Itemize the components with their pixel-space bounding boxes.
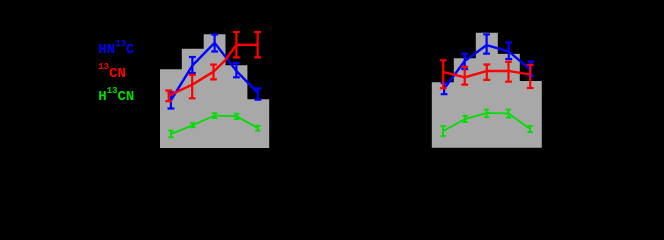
legend entry HN13C [98,42,134,58]
left 13CN (red) point P2 error bar [189,75,196,98]
right HN13C (blue) point P5 error bar [527,62,534,77]
left 13CN (red) point P5 error bar [254,32,261,57]
legend entry H13CN [98,89,134,105]
right H13CN (green) point P1 error bar [440,126,445,136]
right H13CN (green) point P3 error bar [484,110,489,118]
right 13CN (red) point P3 error bar [483,65,490,80]
left 13CN (red) point P4 error bar [233,32,240,57]
left HN13C (blue) line [171,43,258,101]
right HN13C (blue) line [444,45,531,89]
right 13CN (red) point P1 error bar [440,60,447,88]
right 13CN (red) point P2 error bar [461,67,468,85]
left HN13C (blue) point P2 error bar [189,57,196,73]
right H13CN (green) point P4 error bar [506,110,511,118]
left H13CN (green) point P3 error bar [212,113,217,118]
left H13CN (green) line [171,116,258,134]
left panel beam histogram [160,34,269,148]
right panel beam histogram [432,33,542,148]
left HN13C (blue) point P4 error bar [233,63,240,77]
right 13CN (red) line [443,71,530,77]
left HN13C (blue) point P3 error bar [211,35,218,52]
right H13CN (green) point P2 error bar [463,116,468,122]
left H13CN (green) point P4 error bar [234,114,239,119]
right HN13C (blue) point P2 error bar [461,54,468,69]
right HN13C (blue) point P3 error bar [483,34,490,53]
left H13CN (green) point P5 error bar [255,126,260,131]
left 13CN (red) point P3 error bar [210,65,217,80]
left 13CN (red) line [169,45,258,96]
left HN13C (blue) point P5 error bar [255,88,262,99]
right 13CN (red) point P4 error bar [505,62,512,82]
left HN13C (blue) point P1 error bar [168,92,175,108]
left H13CN (green) point P2 error bar [190,123,195,127]
left 13CN (red) point P1 error bar [165,91,172,102]
right H13CN (green) point P5 error bar [527,126,532,132]
legend entry 13CN [98,66,126,82]
right 13CN (red) point P5 error bar [527,65,534,88]
right HN13C (blue) point P1 error bar [441,83,448,94]
right H13CN (green) line [443,113,530,131]
right HN13C (blue) point P4 error bar [505,43,512,60]
left H13CN (green) point P1 error bar [168,131,173,138]
